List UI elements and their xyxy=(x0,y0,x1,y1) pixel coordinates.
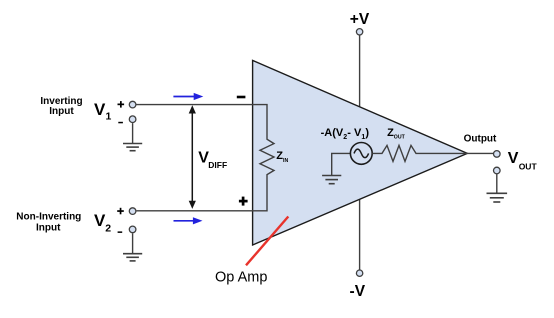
svg-text:OUT: OUT xyxy=(519,161,538,171)
svg-text:V: V xyxy=(94,211,106,230)
svg-text:Input: Input xyxy=(36,223,61,234)
svg-text:- V: - V xyxy=(347,127,362,139)
svg-text:IN: IN xyxy=(283,158,288,164)
svg-text:-V: -V xyxy=(350,283,366,300)
svg-text:1: 1 xyxy=(106,111,112,123)
svg-text:Input: Input xyxy=(49,106,74,117)
svg-text:Output: Output xyxy=(464,134,497,145)
svg-text:Non-Inverting: Non-Inverting xyxy=(16,212,81,223)
svg-text:OUT: OUT xyxy=(394,135,406,141)
svg-text:V: V xyxy=(94,100,106,119)
svg-text:): ) xyxy=(365,127,369,139)
svg-text:Op Amp: Op Amp xyxy=(215,270,267,286)
svg-text:DIFF: DIFF xyxy=(208,160,227,170)
svg-text:+V: +V xyxy=(350,11,370,28)
svg-text:V: V xyxy=(508,150,519,167)
svg-text:-A(V: -A(V xyxy=(321,127,344,139)
svg-text:2: 2 xyxy=(105,223,111,235)
